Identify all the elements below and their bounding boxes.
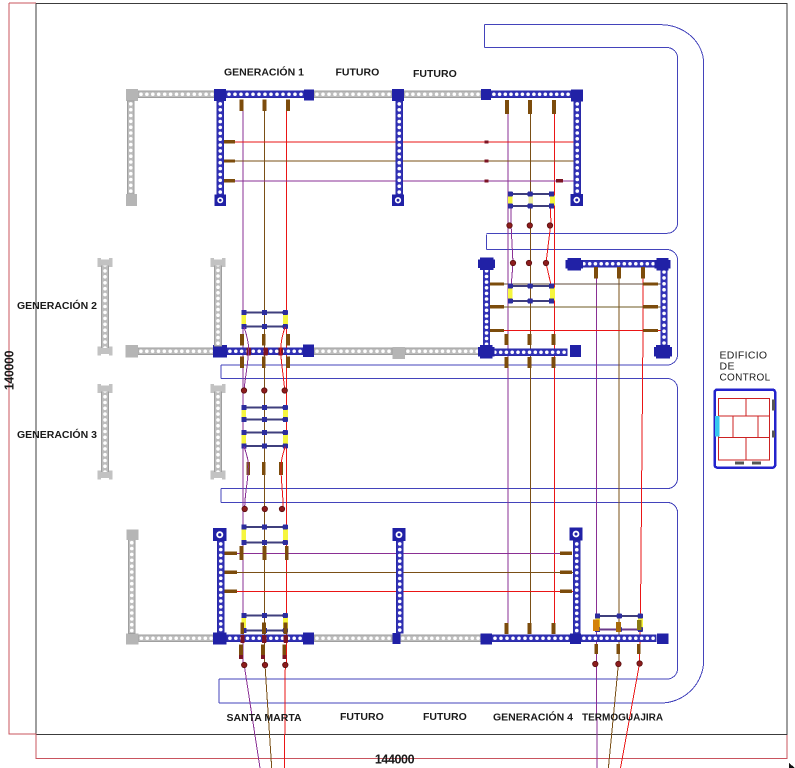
svg-text:FUTURO: FUTURO (340, 711, 384, 723)
svg-text:GENERACIÓN 1: GENERACIÓN 1 (224, 66, 304, 79)
svg-text:CONTROL: CONTROL (720, 373, 771, 384)
svg-text:FUTURO: FUTURO (423, 711, 467, 723)
svg-text:DE: DE (720, 361, 735, 373)
svg-text:TERMOGUAJIRA: TERMOGUAJIRA (582, 713, 663, 724)
svg-text:SANTA MARTA: SANTA MARTA (227, 712, 302, 724)
svg-text:FUTURO: FUTURO (413, 68, 457, 80)
svg-text:FUTURO: FUTURO (336, 67, 380, 79)
svg-text:GENERACIÓN 2: GENERACIÓN 2 (17, 299, 97, 312)
svg-text:GENERACIÓN 4: GENERACIÓN 4 (493, 711, 573, 724)
svg-text:GENERACIÓN 3: GENERACIÓN 3 (17, 428, 97, 441)
svg-text:140000: 140000 (3, 350, 17, 390)
svg-text:144000: 144000 (375, 753, 415, 767)
